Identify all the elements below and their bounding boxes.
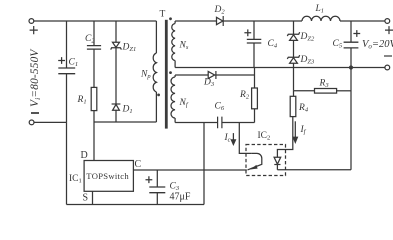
wire source return vertical: [203, 123, 205, 205]
svg-text:D3: D3: [203, 78, 215, 89]
capacitor C1: [66, 21, 68, 68]
svg-text:Vo=20V: Vo=20V: [362, 39, 393, 51]
svg-text:DZ3: DZ3: [300, 55, 315, 66]
diode D2: [217, 17, 223, 24]
inductor L1: [302, 16, 340, 21]
resistor R1: [91, 87, 97, 110]
output terminal -: [385, 65, 390, 70]
wire bottom rail: [67, 204, 205, 206]
zener DZ1: [115, 21, 117, 42]
node junction dot C5 return: [349, 65, 353, 69]
transformer primary winding Np: [155, 21, 157, 53]
capacitor C3: [156, 170, 158, 187]
capacitor C4: [253, 21, 255, 39]
wire left column down: [66, 122, 68, 204]
svg-text:IC1: IC1: [69, 174, 82, 185]
svg-text:IC2: IC2: [258, 131, 271, 142]
transformer feedback winding Nf: [174, 75, 176, 77]
svg-text:If: If: [300, 125, 307, 136]
svg-text:Ic: Ic: [224, 133, 231, 144]
wire D pin vertical: [93, 122, 95, 161]
svg-text:D2: D2: [214, 5, 226, 16]
current arrow Ic: [232, 133, 234, 140]
wire Nf bottom horizontal: [175, 122, 218, 124]
transformer core T: [165, 20, 168, 129]
wire Nf top to D3: [175, 74, 208, 76]
wire C pin to opto emitter: [133, 169, 246, 171]
node phase dot primary: [157, 94, 160, 97]
node plus sign C5: [353, 30, 360, 37]
svg-text:R4: R4: [298, 103, 309, 114]
svg-text:TOPSwitch: TOPSwitch: [86, 171, 129, 181]
optocoupler IC2 box: [246, 145, 286, 176]
diode D1: [112, 103, 121, 105]
node minus sign output: [384, 55, 392, 57]
svg-text:Vi=80-550V: Vi=80-550V: [29, 49, 42, 107]
resistor R4: [293, 91, 295, 97]
wire secondary top rail: [223, 20, 302, 22]
IC1 TOPSwitch box: [84, 161, 133, 192]
svg-text:C1: C1: [69, 58, 79, 69]
svg-text:R2: R2: [239, 90, 250, 101]
svg-text:D: D: [81, 150, 88, 161]
wire top rail primary: [34, 20, 156, 22]
capacitor C6: [218, 117, 222, 129]
wire drain node horizontal: [94, 121, 156, 123]
svg-text:DZ1: DZ1: [122, 43, 137, 54]
output terminal +: [385, 19, 390, 24]
svg-text:D1: D1: [122, 105, 133, 116]
svg-text:Ns: Ns: [179, 41, 189, 52]
node plus sign C3: [146, 176, 153, 183]
zener DZ3: [287, 55, 299, 59]
svg-text:Np: Np: [140, 70, 151, 81]
wire rail to D3 node: [254, 68, 256, 76]
input terminal -: [29, 120, 34, 125]
node plus sign C1: [58, 57, 65, 64]
svg-text:C: C: [135, 159, 142, 170]
opto phototransistor: [248, 153, 262, 170]
svg-text:T: T: [160, 10, 166, 20]
node phase dot Nf: [169, 71, 172, 74]
node plus sign C4: [244, 29, 251, 36]
wire input minus rail: [34, 121, 66, 123]
wire S pin: [92, 191, 94, 204]
svg-text:DZ2: DZ2: [300, 32, 315, 43]
node minus sign input: [31, 112, 39, 114]
node plus sign input: [30, 26, 38, 34]
svg-text:Nf: Nf: [179, 98, 189, 109]
resistor R3: [294, 90, 315, 92]
node plus sign output: [385, 26, 393, 34]
svg-text:C6: C6: [215, 102, 225, 113]
input terminal +: [29, 19, 34, 24]
svg-text:R1: R1: [77, 95, 87, 106]
transformer secondary winding Ns: [174, 21, 176, 24]
capacitor C5: [350, 21, 352, 42]
resistor R2: [254, 75, 256, 88]
svg-text:L1: L1: [315, 4, 325, 15]
opto LED: [274, 157, 281, 164]
wire feedback column: [350, 68, 352, 170]
wire opto collector drop: [239, 123, 252, 154]
current arrow If: [294, 121, 296, 137]
wire secondary return rail: [175, 67, 385, 69]
svg-text:C4: C4: [268, 39, 278, 50]
svg-text:47μF: 47μF: [170, 192, 191, 203]
zener DZ2: [293, 21, 295, 34]
diode D3: [208, 71, 214, 78]
capacitor C2: [93, 21, 95, 46]
wire Ns top to D2: [175, 20, 216, 22]
wire LED cathode to feedback column: [277, 169, 351, 171]
svg-text:R3: R3: [319, 79, 330, 90]
svg-text:C3: C3: [170, 182, 180, 193]
node phase dot Ns: [169, 17, 172, 20]
svg-text:S: S: [83, 193, 89, 204]
svg-text:C5: C5: [333, 39, 343, 50]
wire L1 to output plus: [340, 20, 385, 22]
